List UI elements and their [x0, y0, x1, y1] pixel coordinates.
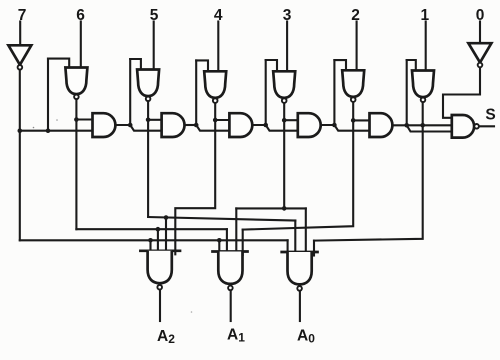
svg-text:S: S	[485, 107, 495, 124]
svg-text:5: 5	[150, 7, 159, 24]
svg-text:7: 7	[18, 7, 27, 24]
svg-text:3: 3	[283, 7, 292, 24]
svg-text:1: 1	[420, 7, 429, 24]
svg-text:6: 6	[76, 7, 85, 24]
svg-text:0: 0	[476, 7, 485, 24]
svg-text:4: 4	[214, 7, 223, 24]
svg-text:2: 2	[351, 7, 360, 24]
